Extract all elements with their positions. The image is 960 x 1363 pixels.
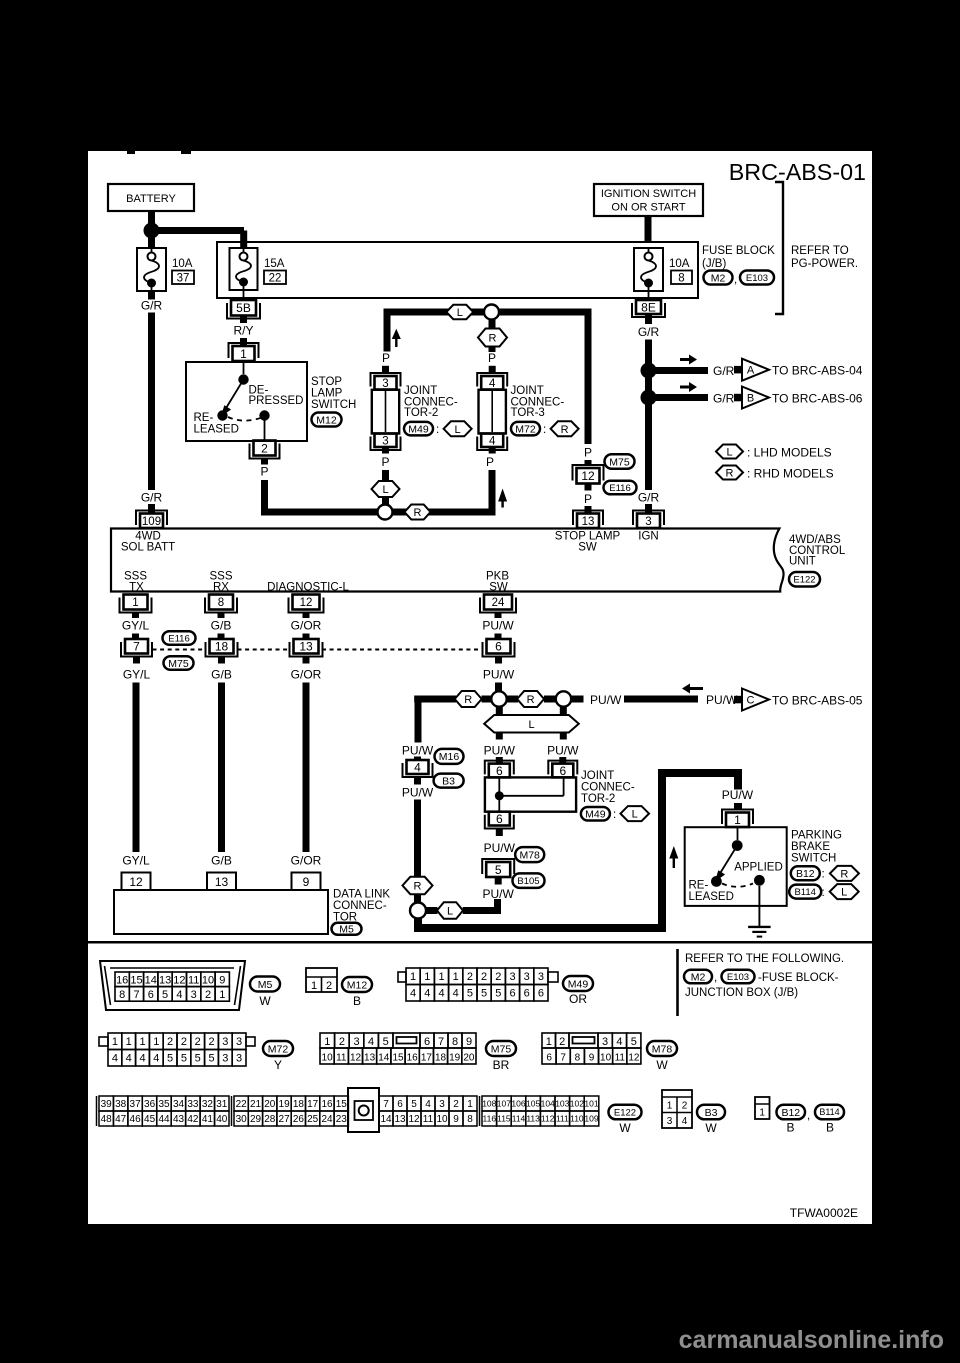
svg-text:7: 7: [133, 640, 140, 654]
svg-text:4: 4: [368, 1036, 374, 1048]
svg-text:B114: B114: [819, 1107, 839, 1117]
svg-text:P: P: [382, 351, 390, 365]
svg-text:34: 34: [173, 1099, 185, 1110]
svg-text:M49: M49: [585, 809, 606, 821]
svg-text:PG-POWER.: PG-POWER.: [791, 258, 858, 270]
svg-text:4: 4: [616, 1036, 622, 1048]
svg-text:B3: B3: [705, 1107, 718, 1119]
svg-text:G/R: G/R: [638, 325, 660, 339]
svg-text:7: 7: [438, 1036, 444, 1048]
svg-text:3: 3: [439, 1099, 445, 1110]
svg-text:2: 2: [559, 1036, 565, 1048]
svg-text:PU/W: PU/W: [402, 744, 434, 758]
svg-text:40: 40: [216, 1114, 228, 1125]
svg-text:RX: RX: [213, 582, 229, 594]
svg-text:1: 1: [219, 989, 225, 1001]
svg-text:STOP: STOP: [311, 376, 342, 388]
svg-text:2: 2: [453, 1099, 459, 1110]
svg-text:16: 16: [321, 1099, 333, 1110]
svg-text:TOR-3: TOR-3: [511, 407, 545, 419]
svg-text:22: 22: [236, 1099, 248, 1110]
svg-text:12: 12: [173, 974, 185, 986]
svg-text:APPLIED: APPLIED: [734, 862, 783, 874]
svg-text:13: 13: [215, 875, 229, 889]
svg-text:114: 114: [512, 1114, 526, 1124]
svg-text:17: 17: [421, 1053, 433, 1064]
svg-text:5: 5: [495, 863, 502, 877]
svg-text:G/B: G/B: [211, 668, 232, 682]
svg-text:41: 41: [202, 1114, 214, 1125]
svg-text:22: 22: [269, 273, 282, 285]
svg-text:5: 5: [383, 1036, 389, 1048]
svg-text:BRAKE: BRAKE: [791, 841, 830, 853]
svg-text:L: L: [726, 447, 732, 459]
svg-text:7: 7: [133, 989, 139, 1001]
svg-text:M12: M12: [347, 979, 368, 991]
svg-text:4: 4: [176, 989, 182, 1001]
svg-text:13: 13: [159, 974, 171, 986]
svg-text:L: L: [632, 809, 638, 821]
svg-text:: LHD MODELS: : LHD MODELS: [747, 446, 832, 460]
svg-text:M5: M5: [339, 924, 354, 936]
svg-text:8: 8: [678, 273, 684, 285]
svg-text:2: 2: [467, 971, 473, 983]
svg-text:12: 12: [350, 1053, 362, 1064]
svg-text:6: 6: [148, 989, 154, 1001]
svg-text:9: 9: [466, 1036, 472, 1048]
svg-text:8: 8: [119, 989, 125, 1001]
svg-text:FUSE BLOCK: FUSE BLOCK: [702, 245, 775, 257]
svg-text:REFER TO: REFER TO: [791, 245, 849, 257]
svg-text:E122: E122: [614, 1107, 636, 1118]
svg-text:48: 48: [101, 1114, 113, 1125]
svg-text:4: 4: [126, 1053, 132, 1065]
svg-text:116: 116: [483, 1114, 497, 1124]
svg-text:G/OR: G/OR: [291, 854, 322, 868]
svg-text:LAMP: LAMP: [311, 388, 343, 400]
svg-text:1: 1: [667, 1101, 673, 1112]
svg-text::: :: [822, 887, 825, 899]
svg-text:1: 1: [453, 971, 459, 983]
svg-text:1: 1: [139, 1036, 145, 1048]
svg-text:B105: B105: [517, 876, 539, 887]
svg-text:L: L: [457, 307, 463, 319]
svg-text:3: 3: [236, 1053, 242, 1065]
svg-text:2: 2: [326, 980, 332, 992]
svg-text:B: B: [747, 393, 754, 405]
svg-text:38: 38: [115, 1099, 127, 1110]
svg-text:E116: E116: [168, 633, 189, 644]
svg-text:M75: M75: [609, 456, 630, 468]
svg-text:14: 14: [380, 1114, 392, 1125]
svg-text:PU/W: PU/W: [483, 668, 515, 682]
svg-text:2: 2: [208, 1036, 214, 1048]
svg-text:42: 42: [187, 1114, 199, 1125]
svg-text:31: 31: [216, 1099, 228, 1110]
svg-text:PARKING: PARKING: [791, 830, 842, 842]
svg-text:TFWA0002E: TFWA0002E: [790, 1206, 858, 1220]
svg-text:4: 4: [489, 435, 496, 447]
svg-text:109: 109: [142, 516, 161, 528]
svg-text:6: 6: [397, 1099, 403, 1110]
svg-text:3: 3: [353, 1036, 359, 1048]
svg-text:4: 4: [414, 760, 421, 774]
svg-text:TOR-2: TOR-2: [404, 407, 438, 419]
svg-text:102: 102: [570, 1099, 584, 1109]
svg-text:29: 29: [250, 1114, 262, 1125]
svg-text::: :: [436, 424, 439, 436]
svg-text:PU/W: PU/W: [706, 693, 738, 707]
svg-text:G/B: G/B: [211, 619, 232, 633]
svg-text:OR: OR: [569, 992, 587, 1006]
svg-text:104: 104: [541, 1099, 555, 1109]
svg-text:E116: E116: [609, 483, 630, 494]
svg-text:5: 5: [181, 1053, 187, 1065]
svg-text:PU/W: PU/W: [484, 744, 516, 758]
svg-text:3: 3: [222, 1036, 228, 1048]
svg-text::: :: [613, 809, 616, 821]
svg-text:A: A: [747, 365, 755, 377]
svg-text:M78: M78: [652, 1043, 673, 1055]
svg-text:27: 27: [279, 1114, 291, 1125]
svg-text:4: 4: [489, 378, 496, 390]
svg-text:9: 9: [453, 1114, 459, 1125]
svg-text:3: 3: [382, 378, 388, 390]
svg-text:1: 1: [112, 1036, 118, 1048]
svg-text:2: 2: [261, 441, 268, 455]
svg-text:G/R: G/R: [713, 392, 735, 406]
svg-text:L: L: [382, 484, 388, 496]
svg-text:19: 19: [449, 1053, 461, 1064]
svg-text:E103: E103: [727, 972, 749, 983]
svg-text:11: 11: [423, 1114, 434, 1125]
svg-text:CONNEC-: CONNEC-: [333, 900, 387, 912]
svg-text:11: 11: [336, 1053, 347, 1064]
svg-text:2: 2: [339, 1036, 345, 1048]
svg-text:10: 10: [202, 974, 214, 986]
svg-text:(J/B): (J/B): [702, 258, 726, 270]
svg-text:G/R: G/R: [638, 491, 660, 505]
svg-text:110: 110: [570, 1114, 584, 1124]
svg-text:JOINT: JOINT: [581, 770, 614, 782]
svg-text:G/R: G/R: [713, 364, 735, 378]
svg-text:TX: TX: [129, 582, 144, 594]
svg-text:37: 37: [130, 1099, 142, 1110]
svg-text:CONNEC-: CONNEC-: [581, 782, 635, 794]
svg-text:IGN: IGN: [638, 531, 658, 543]
svg-text:PU/W: PU/W: [547, 744, 579, 758]
svg-text:1: 1: [424, 971, 430, 983]
svg-text:3: 3: [538, 971, 544, 983]
svg-text:R: R: [464, 694, 472, 706]
svg-text:4: 4: [682, 1116, 688, 1127]
svg-text:G/R: G/R: [141, 491, 163, 505]
svg-text:B114: B114: [794, 887, 815, 898]
svg-text:PU/W: PU/W: [722, 788, 754, 802]
svg-text:106: 106: [511, 1099, 525, 1109]
svg-text:: RHD MODELS: : RHD MODELS: [747, 467, 834, 481]
svg-text:5B: 5B: [236, 301, 251, 315]
svg-text:R: R: [840, 868, 848, 880]
svg-text:2: 2: [181, 1036, 187, 1048]
svg-text:107: 107: [497, 1099, 511, 1109]
svg-text:24: 24: [321, 1114, 333, 1125]
svg-text:1: 1: [153, 1036, 159, 1048]
svg-text:GY/L: GY/L: [123, 668, 151, 682]
svg-text:M75: M75: [491, 1043, 512, 1055]
svg-text:3: 3: [667, 1116, 673, 1127]
svg-text:L: L: [528, 719, 534, 731]
svg-text:1: 1: [546, 1036, 552, 1048]
svg-text:105: 105: [526, 1099, 540, 1109]
svg-text:R: R: [561, 424, 569, 436]
svg-text:1: 1: [759, 1108, 765, 1119]
svg-text:SW: SW: [578, 542, 597, 554]
svg-text:TO BRC-ABS-06: TO BRC-ABS-06: [772, 392, 863, 406]
svg-text:M2: M2: [691, 971, 706, 983]
svg-text:,: ,: [734, 274, 737, 286]
svg-text:5: 5: [495, 988, 501, 1000]
svg-text:E122: E122: [793, 575, 815, 586]
svg-text:9: 9: [303, 875, 310, 889]
svg-text:8: 8: [218, 597, 224, 609]
svg-text:B: B: [826, 1121, 834, 1135]
svg-text:TO BRC-ABS-04: TO BRC-ABS-04: [772, 364, 863, 378]
svg-text:33: 33: [187, 1099, 199, 1110]
svg-text:6: 6: [524, 988, 530, 1000]
svg-text:5: 5: [631, 1036, 637, 1048]
svg-text:B: B: [786, 1121, 794, 1135]
svg-text:21: 21: [250, 1099, 262, 1110]
svg-text:TOR-2: TOR-2: [581, 793, 615, 805]
svg-text:R/Y: R/Y: [233, 324, 253, 338]
svg-text:M72: M72: [268, 1043, 289, 1055]
svg-text:115: 115: [497, 1114, 511, 1124]
svg-text:C: C: [747, 695, 755, 707]
svg-text:18: 18: [293, 1099, 305, 1110]
svg-text:E103: E103: [746, 273, 768, 284]
svg-text:5: 5: [467, 988, 473, 1000]
svg-text:SWITCH: SWITCH: [311, 399, 356, 411]
svg-text:PU/W: PU/W: [402, 786, 434, 800]
svg-text:,: ,: [714, 972, 717, 984]
svg-text:G/B: G/B: [211, 854, 232, 868]
svg-text:RE-: RE-: [194, 412, 214, 424]
svg-text:20: 20: [264, 1099, 276, 1110]
svg-text:PRESSED: PRESSED: [249, 395, 304, 407]
svg-text:1: 1: [311, 980, 317, 992]
svg-text:109: 109: [584, 1114, 598, 1124]
svg-text:R: R: [489, 333, 497, 345]
svg-text:M72: M72: [515, 423, 536, 435]
svg-text:1: 1: [734, 813, 741, 827]
svg-text:45: 45: [144, 1114, 156, 1125]
svg-text:17: 17: [307, 1099, 319, 1110]
svg-text:15: 15: [392, 1053, 404, 1064]
svg-text:Y: Y: [274, 1058, 282, 1072]
svg-text:M12: M12: [316, 414, 337, 426]
svg-text:1: 1: [438, 971, 444, 983]
svg-text:13: 13: [299, 640, 313, 654]
svg-text:39: 39: [101, 1099, 113, 1110]
svg-text:P: P: [381, 455, 389, 469]
svg-text:43: 43: [173, 1114, 185, 1125]
svg-text:DIAGNOSTIC-L: DIAGNOSTIC-L: [267, 582, 349, 594]
svg-text:12: 12: [628, 1053, 640, 1064]
svg-text:10: 10: [600, 1053, 612, 1064]
svg-text:2: 2: [167, 1036, 173, 1048]
svg-text:8: 8: [467, 1114, 473, 1125]
svg-text:4: 4: [438, 988, 444, 1000]
svg-text:12: 12: [408, 1114, 420, 1125]
svg-text:11: 11: [188, 974, 199, 986]
svg-text:19: 19: [279, 1099, 291, 1110]
svg-text:JUNCTION BOX (J/B): JUNCTION BOX (J/B): [685, 987, 798, 999]
svg-text:SW: SW: [489, 582, 508, 594]
svg-text:6: 6: [559, 764, 566, 778]
svg-text:25: 25: [307, 1114, 319, 1125]
svg-text:9: 9: [219, 974, 225, 986]
svg-text:1: 1: [126, 1036, 132, 1048]
svg-text:3: 3: [645, 516, 651, 528]
svg-text:GY/L: GY/L: [122, 854, 150, 868]
svg-text:3: 3: [382, 435, 388, 447]
svg-text:30: 30: [236, 1114, 248, 1125]
svg-text:6: 6: [546, 1053, 552, 1064]
svg-text:PU/W: PU/W: [482, 619, 514, 633]
svg-text:15: 15: [336, 1099, 348, 1110]
svg-text:REFER TO THE FOLLOWING.: REFER TO THE FOLLOWING.: [685, 953, 844, 965]
svg-text:GY/L: GY/L: [122, 619, 150, 633]
svg-text:M16: M16: [439, 751, 460, 763]
svg-text:1: 1: [467, 1099, 473, 1110]
svg-text:4: 4: [410, 988, 416, 1000]
svg-text:6: 6: [496, 764, 503, 778]
svg-text:13: 13: [394, 1114, 406, 1125]
svg-text:SOL BATT: SOL BATT: [121, 542, 175, 554]
svg-text:BRC-ABS-01: BRC-ABS-01: [729, 159, 866, 185]
svg-text:P: P: [584, 492, 592, 506]
svg-text:LEASED: LEASED: [689, 891, 734, 903]
svg-text:11: 11: [615, 1053, 626, 1064]
svg-text:4: 4: [425, 1099, 431, 1110]
svg-text:R: R: [414, 507, 422, 519]
svg-text:15: 15: [130, 974, 142, 986]
svg-text:G/R: G/R: [141, 299, 163, 313]
svg-text:1: 1: [132, 597, 138, 609]
svg-text:6: 6: [424, 1036, 430, 1048]
svg-text:W: W: [656, 1058, 668, 1072]
svg-text:B12: B12: [796, 868, 815, 880]
svg-text:B: B: [353, 994, 361, 1008]
svg-text:4: 4: [153, 1053, 159, 1065]
svg-text:6: 6: [538, 988, 544, 1000]
svg-text:2: 2: [195, 1036, 201, 1048]
svg-text:BR: BR: [493, 1058, 510, 1072]
svg-text:IGNITION SWITCH: IGNITION SWITCH: [601, 188, 696, 200]
svg-text:23: 23: [336, 1114, 348, 1125]
svg-text:B12: B12: [781, 1107, 800, 1119]
svg-text:5: 5: [167, 1053, 173, 1065]
svg-text:4: 4: [139, 1053, 145, 1065]
svg-text:12: 12: [300, 597, 313, 609]
svg-text:113: 113: [526, 1114, 540, 1124]
svg-text:M49: M49: [568, 978, 589, 990]
svg-text:1: 1: [324, 1036, 330, 1048]
svg-text:10: 10: [436, 1114, 448, 1125]
svg-text:9: 9: [589, 1053, 595, 1064]
svg-text:6: 6: [509, 988, 515, 1000]
svg-text:7: 7: [383, 1099, 389, 1110]
svg-text:5: 5: [481, 988, 487, 1000]
svg-text:28: 28: [264, 1114, 276, 1125]
svg-text::: :: [822, 869, 825, 881]
svg-text:JOINT: JOINT: [511, 385, 544, 397]
svg-text:8: 8: [575, 1053, 581, 1064]
svg-text:5: 5: [162, 989, 168, 1001]
svg-text:3: 3: [236, 1036, 242, 1048]
svg-text:W: W: [259, 994, 271, 1008]
svg-text:5: 5: [195, 1053, 201, 1065]
svg-text:6: 6: [496, 812, 503, 826]
svg-text:,: ,: [807, 1110, 810, 1122]
svg-text:35: 35: [158, 1099, 170, 1110]
svg-text:108: 108: [482, 1099, 496, 1109]
svg-text:8E: 8E: [641, 300, 656, 314]
svg-text::: :: [543, 424, 546, 436]
svg-text:112: 112: [541, 1114, 555, 1124]
svg-text:12: 12: [581, 469, 595, 483]
svg-text:2: 2: [481, 971, 487, 983]
svg-text:P: P: [584, 446, 592, 460]
svg-text:7: 7: [560, 1053, 566, 1064]
svg-text:R: R: [726, 468, 734, 480]
svg-text:BATTERY: BATTERY: [126, 193, 176, 205]
svg-text:P: P: [260, 465, 268, 479]
svg-text:46: 46: [130, 1114, 142, 1125]
svg-text:14: 14: [145, 974, 157, 986]
svg-text:1: 1: [410, 971, 416, 983]
svg-text:3: 3: [191, 989, 197, 1001]
svg-text:M78: M78: [519, 849, 540, 861]
svg-text:14: 14: [378, 1053, 390, 1064]
svg-text:5: 5: [411, 1099, 417, 1110]
svg-text:M2: M2: [711, 272, 726, 284]
svg-text:5: 5: [208, 1053, 214, 1065]
svg-text:36: 36: [144, 1099, 156, 1110]
svg-text:PU/W: PU/W: [590, 693, 622, 707]
svg-text:13: 13: [582, 516, 595, 528]
svg-text:R: R: [414, 881, 422, 893]
svg-text:R: R: [527, 694, 535, 706]
svg-text:ON OR START: ON OR START: [611, 202, 685, 214]
svg-text:37: 37: [177, 273, 190, 285]
svg-text:G/OR: G/OR: [291, 619, 322, 633]
svg-text:3: 3: [222, 1053, 228, 1065]
svg-text:24: 24: [492, 597, 505, 609]
svg-text:LEASED: LEASED: [194, 424, 239, 436]
svg-text:3: 3: [509, 971, 515, 983]
svg-text:18: 18: [435, 1053, 447, 1064]
svg-text:103: 103: [555, 1099, 569, 1109]
svg-text:1: 1: [240, 347, 247, 361]
svg-text:PU/W: PU/W: [484, 841, 516, 855]
svg-text:18: 18: [215, 640, 229, 654]
svg-text:16: 16: [116, 974, 128, 986]
svg-text:2: 2: [205, 989, 211, 1001]
svg-text:10A: 10A: [172, 258, 193, 270]
svg-text:TO BRC-ABS-05: TO BRC-ABS-05: [772, 694, 863, 708]
